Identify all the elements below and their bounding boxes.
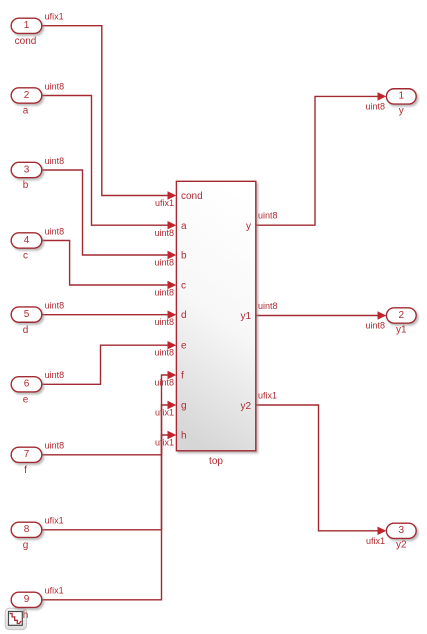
signal type label ufix1 at subsystem output y2: [258, 391, 277, 401]
svg-text:ufix1: ufix1: [155, 408, 174, 418]
subsystem input arrowhead g: [168, 401, 177, 409]
svg-text:4: 4: [24, 235, 30, 246]
outport 2 name label y1: [396, 324, 407, 335]
svg-text:uint8: uint8: [45, 370, 65, 380]
svg-text:ufix1: ufix1: [45, 586, 64, 596]
svg-text:5: 5: [24, 309, 30, 320]
signal type label uint8 at subsystem input c: [154, 288, 174, 298]
signal type label uint8 at subsystem input d: [154, 317, 174, 327]
svg-text:uint8: uint8: [154, 288, 174, 298]
outport 2 type label uint8: [365, 321, 385, 331]
svg-text:ufix1: ufix1: [155, 198, 174, 208]
svg-text:uint8: uint8: [45, 441, 65, 451]
svg-text:uint8: uint8: [154, 228, 174, 238]
outport arrowhead y2: [378, 527, 387, 535]
svg-text:2: 2: [24, 90, 30, 101]
subsystem input arrowhead c: [168, 281, 177, 289]
subsystem port label g: [181, 401, 187, 412]
inport 9 name label h: [23, 610, 29, 621]
svg-text:g: g: [181, 401, 187, 412]
wire y2: subsystem output y2 to outport 3: [256, 405, 378, 531]
inport 9 type label ufix1: [45, 586, 64, 596]
subsystem input arrowhead a: [168, 221, 177, 229]
svg-text:h: h: [181, 431, 187, 442]
svg-text:cond: cond: [15, 36, 37, 47]
inport 5 type label uint8: [45, 301, 65, 311]
inport 7 type label uint8: [45, 441, 65, 451]
svg-text:ufix1: ufix1: [155, 438, 174, 448]
inport 2: [11, 88, 42, 103]
subsystem input arrowhead cond: [168, 191, 177, 199]
wire a: inport 2 to subsystem input a: [42, 96, 169, 226]
svg-text:uint8: uint8: [365, 321, 385, 331]
sample time legend badge: [5, 608, 26, 629]
signal type label uint8 at subsystem input b: [154, 258, 174, 268]
wire g: inport 8 to subsystem input g: [42, 405, 169, 530]
outport 3 name label y2: [396, 540, 407, 551]
outport 3 type label ufix1: [366, 536, 385, 546]
signal type label ufix1 at subsystem input g: [155, 408, 174, 418]
wire cond: inport 1 to subsystem input cond: [42, 26, 169, 196]
inport 6 type label uint8: [45, 370, 65, 380]
svg-text:1: 1: [24, 20, 30, 31]
svg-text:y2: y2: [240, 401, 251, 412]
svg-text:3: 3: [399, 525, 405, 536]
wire h: inport 9 to subsystem input h: [42, 435, 169, 600]
svg-text:c: c: [23, 251, 28, 262]
subsystem input arrowhead h: [168, 431, 177, 439]
svg-text:d: d: [181, 310, 187, 321]
subsystem port label y: [246, 221, 251, 232]
svg-text:uint8: uint8: [154, 348, 174, 358]
svg-text:top: top: [209, 456, 223, 467]
wire e: inport 6 to subsystem input e: [42, 345, 169, 384]
subsystem port label f: [181, 371, 184, 382]
svg-text:ufix1: ufix1: [366, 536, 385, 546]
svg-text:uint8: uint8: [154, 258, 174, 268]
svg-text:a: a: [23, 106, 29, 117]
outport arrowhead y: [378, 92, 387, 100]
svg-text:uint8: uint8: [45, 301, 65, 311]
subsystem port label h: [181, 431, 187, 442]
svg-text:b: b: [181, 251, 187, 262]
outport 1: [386, 89, 416, 104]
subsystem input arrowhead b: [168, 251, 177, 259]
signal type label uint8 at subsystem output y1: [258, 301, 278, 311]
svg-text:ufix1: ufix1: [258, 391, 277, 401]
subsystem port label y2: [240, 401, 251, 412]
inport 1 name label cond: [15, 36, 37, 47]
subsystem input arrowhead d: [168, 311, 177, 319]
inport 4 name label c: [23, 251, 28, 262]
svg-text:y1: y1: [240, 311, 251, 322]
inport 8: [11, 522, 42, 537]
subsystem port label d: [181, 310, 187, 321]
svg-text:g: g: [23, 540, 29, 551]
svg-text:uint8: uint8: [365, 101, 385, 111]
svg-text:d: d: [23, 325, 29, 336]
signal type label uint8 at subsystem output y: [258, 211, 278, 221]
svg-text:uint8: uint8: [258, 211, 278, 221]
subsystem input arrowhead e: [168, 341, 177, 349]
svg-text:uint8: uint8: [154, 378, 174, 388]
subsystem port label c: [181, 281, 186, 292]
svg-text:uint8: uint8: [45, 81, 65, 91]
inport 6: [11, 377, 42, 392]
inport 8 type label ufix1: [45, 516, 64, 526]
outport arrowhead y1: [378, 311, 387, 319]
svg-text:1: 1: [399, 91, 405, 102]
svg-text:7: 7: [24, 449, 30, 460]
signal type label uint8 at subsystem input e: [154, 348, 174, 358]
svg-text:8: 8: [24, 524, 30, 535]
svg-text:uint8: uint8: [154, 317, 174, 327]
outport 2: [386, 308, 416, 323]
svg-text:e: e: [23, 394, 29, 405]
subsystem port label b: [181, 251, 187, 262]
svg-text:e: e: [181, 341, 187, 352]
subsystem port label y1: [240, 311, 251, 322]
inport 3: [11, 162, 42, 177]
inport 3 type label uint8: [45, 156, 65, 166]
svg-text:ufix1: ufix1: [45, 12, 64, 22]
inport 1: [11, 18, 42, 33]
subsystem input arrowhead f: [168, 371, 177, 379]
subsystem port label a: [181, 221, 187, 232]
svg-text:6: 6: [24, 379, 30, 390]
subsystem port label cond: [181, 191, 203, 202]
svg-text:y2: y2: [396, 540, 407, 551]
subsystem U: top: [176, 181, 255, 467]
svg-text:uint8: uint8: [258, 301, 278, 311]
inport 5 name label d: [23, 325, 29, 336]
svg-text:2: 2: [399, 310, 405, 321]
wire c: inport 4 to subsystem input c: [42, 241, 169, 286]
inport 8 name label g: [23, 540, 29, 551]
svg-text:c: c: [181, 281, 186, 292]
subsystem port label e: [181, 341, 187, 352]
outport 3: [386, 523, 416, 538]
svg-text:9: 9: [24, 594, 30, 605]
inport 6 name label e: [23, 394, 29, 405]
outport 1 name label y: [399, 105, 404, 116]
wire b: inport 3 to subsystem input b: [42, 170, 169, 255]
svg-text:uint8: uint8: [45, 156, 65, 166]
inport 7 name label f: [24, 465, 27, 476]
svg-text:ufix1: ufix1: [45, 516, 64, 526]
svg-text:b: b: [23, 180, 29, 191]
inport 7: [11, 447, 42, 462]
svg-text:f: f: [181, 371, 184, 382]
svg-text:cond: cond: [181, 191, 203, 202]
inport 1 type label ufix1: [45, 12, 64, 22]
wire f: inport 7 to subsystem input f: [42, 375, 169, 455]
signal type label ufix1 at subsystem input h: [155, 438, 174, 448]
svg-text:f: f: [24, 465, 27, 476]
svg-text:y: y: [246, 221, 251, 232]
inport 9: [11, 592, 42, 607]
svg-text:y: y: [399, 105, 404, 116]
svg-text:a: a: [181, 221, 187, 232]
inport 4: [11, 233, 42, 248]
svg-text:uint8: uint8: [45, 226, 65, 236]
svg-text:h: h: [23, 610, 29, 621]
inport 3 name label b: [23, 180, 29, 191]
wire y1: subsystem output y1 to outport 2: [256, 315, 378, 317]
signal type label uint8 at subsystem input f: [154, 378, 174, 388]
svg-text:3: 3: [24, 164, 30, 175]
inport 4 type label uint8: [45, 226, 65, 236]
outport 1 type label uint8: [365, 101, 385, 111]
signal type label ufix1 at subsystem input cond: [155, 198, 174, 208]
wire d: inport 5 to subsystem input d: [42, 314, 169, 316]
inport 2 name label a: [23, 106, 29, 117]
signal type label uint8 at subsystem input a: [154, 228, 174, 238]
wire y: subsystem output y to outport 1: [256, 96, 378, 225]
inport 2 type label uint8: [45, 81, 65, 91]
inport 5: [11, 307, 42, 322]
svg-text:y1: y1: [396, 324, 407, 335]
